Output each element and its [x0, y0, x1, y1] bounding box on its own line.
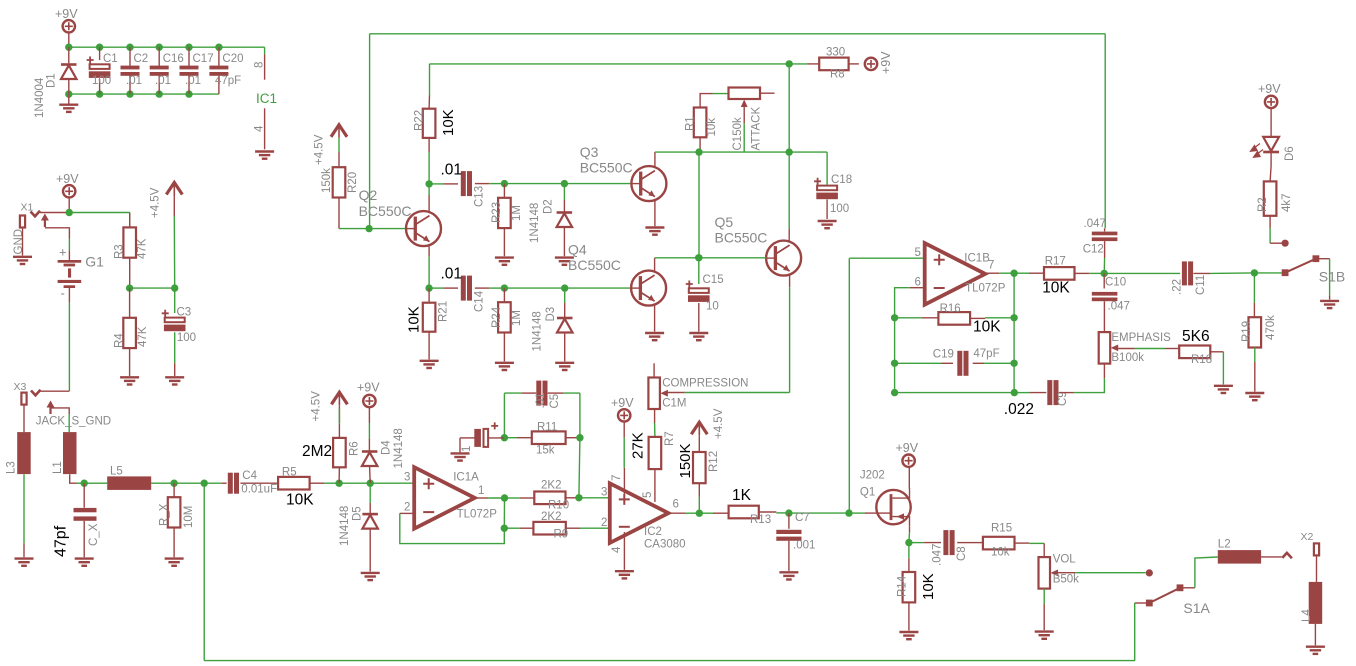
svg-text:10K: 10K [286, 492, 314, 509]
junction R16 right [1010, 314, 1017, 321]
wire R15 to VOL [1015, 543, 1045, 557]
diode D3 1N4148 [532, 288, 573, 361]
svg-text:C8: C8 [956, 546, 968, 561]
wire Q4 emitter to ground [654, 305, 656, 331]
svg-text:R_X: R_X [159, 503, 171, 526]
wire X1 switch to battery+ [45, 228, 70, 251]
svg-text:R3: R3 [114, 244, 126, 259]
IC1A pin3 label [404, 472, 410, 484]
wire +9V pin down [68, 198, 70, 213]
svg-text:C18: C18 [831, 174, 852, 186]
potentiometer C1M COMPRESSION [648, 378, 748, 410]
junction dots top bus [65, 44, 222, 51]
resistor R5 10K [278, 466, 314, 508]
capacitor C17 .01 [180, 47, 214, 94]
wire +9V to IC2 pin7 [623, 422, 625, 494]
svg-text:1M: 1M [511, 205, 523, 221]
inductor L3 [6, 405, 31, 475]
ground IC2 [615, 571, 634, 578]
svg-text:C20: C20 [222, 53, 243, 65]
svg-text:.047: .047 [1108, 301, 1130, 313]
transistor Q1 J202 JFET [860, 470, 911, 527]
svg-text:GND: GND [13, 229, 25, 255]
svg-text:.001: .001 [793, 540, 815, 552]
IC1 label [256, 91, 277, 106]
wire S1B pole to ground [1316, 259, 1330, 300]
wire top filter bus [69, 46, 265, 48]
capacitor C12 .047 [1083, 218, 1118, 273]
junction R1 bottom [695, 148, 702, 155]
wire gate to JFET [849, 512, 876, 514]
ground VOL [1035, 632, 1054, 639]
svg-text:L5: L5 [110, 466, 123, 478]
svg-text:C5: C5 [549, 394, 561, 409]
transistor Q3 BC550C [580, 144, 667, 201]
svg-text:R10: R10 [548, 500, 569, 512]
svg-text:2M2: 2M2 [302, 443, 332, 460]
junction J202 gate node [845, 509, 852, 516]
svg-text:G1: G1 [85, 254, 104, 270]
ground C_X [75, 559, 94, 566]
svg-text:2: 2 [601, 517, 607, 529]
resistor R21 10K [406, 288, 450, 333]
svg-text:L2: L2 [1218, 539, 1231, 551]
svg-text:1M: 1M [511, 310, 523, 326]
capacitor C9 .022 [1004, 380, 1069, 418]
junction C9 row left [891, 389, 898, 396]
LED D6 [1251, 137, 1297, 161]
capacitor C18 100 electrolytic [814, 174, 852, 219]
supply +9V (IC2) [611, 396, 634, 422]
wire IC2 pin4 to ground [623, 532, 625, 570]
wire bus1 vertical (C12 feedback) [369, 34, 371, 229]
wire Q3 emitter to ground [654, 201, 656, 227]
wire bus2 from R22 [430, 64, 790, 96]
svg-text:C16: C16 [163, 53, 184, 65]
resistor R1 10k [685, 108, 719, 138]
svg-text:C7: C7 [795, 512, 810, 524]
capacitor C_X 47pf [53, 483, 101, 557]
svg-text:.01: .01 [185, 75, 201, 87]
pot C1M top stub [653, 363, 655, 377]
capacitor C2 .01 [121, 47, 149, 94]
wire R9 to CA3080 - [566, 527, 610, 529]
svg-text:150K: 150K [677, 443, 694, 478]
svg-text:L1: L1 [52, 461, 64, 474]
svg-text:S1B: S1B [1319, 269, 1345, 285]
svg-text:15k: 15k [536, 445, 555, 457]
svg-text:TL072P: TL072P [457, 509, 498, 521]
diode D2 1N4148 [529, 184, 572, 257]
resistor R6 2M2 [302, 438, 361, 467]
wire C14 to row2 [475, 287, 505, 289]
svg-text:1: 1 [461, 446, 473, 452]
svg-text:C13: C13 [474, 186, 486, 207]
wire C9 to EMPHASIS [1059, 364, 1104, 393]
wire R22 to Q2 collector [428, 138, 430, 184]
capacitor C6 1 electrolytic [451, 422, 505, 460]
wire C9 row [895, 389, 1047, 396]
junction C_X node [81, 480, 108, 487]
junction R12 bottom [696, 510, 703, 517]
svg-text:47K: 47K [137, 238, 149, 259]
svg-text:.01: .01 [441, 162, 463, 179]
ground C15 [689, 333, 708, 340]
svg-text:R22: R22 [414, 110, 426, 131]
ground R_X [165, 559, 184, 566]
supply +9V (D4) [357, 381, 380, 408]
resistor R13 1K [729, 487, 772, 526]
svg-text:330: 330 [826, 47, 845, 59]
wire X3 tip from battery [41, 390, 70, 392]
IC2 pin labels [601, 475, 679, 553]
svg-text:C14: C14 [474, 290, 486, 312]
inductor L2 [1218, 539, 1261, 564]
wire end dot VOL wiper [1146, 569, 1153, 576]
wire +4.5V to R12 [698, 435, 700, 452]
svg-text:5K6: 5K6 [1182, 328, 1210, 345]
svg-text:R21: R21 [438, 301, 450, 322]
supply +4.5V (R20) [314, 124, 348, 165]
svg-text:1K: 1K [732, 487, 752, 504]
supply +4.5V (R6) [311, 391, 348, 422]
svg-text:.01: .01 [126, 75, 142, 87]
pot EMPHASIS wiper wire [1117, 348, 1166, 350]
resistor R2 4k7 [1257, 181, 1293, 215]
svg-text:X2: X2 [1301, 531, 1314, 543]
svg-text:.022: .022 [1004, 401, 1034, 418]
svg-text:+9V: +9V [896, 441, 919, 455]
ground R24 [495, 363, 514, 370]
wire C18 branch [789, 152, 827, 185]
capacitor C7 .001 [776, 512, 815, 571]
svg-text:6: 6 [915, 277, 921, 289]
junction R16 left [891, 314, 898, 363]
wire R21 to ground [428, 332, 430, 360]
ground C7 [779, 572, 798, 579]
ground D3 [555, 363, 574, 370]
ground R4 [120, 377, 139, 384]
capacitor C13 .01 [441, 162, 486, 208]
svg-text:+9V: +9V [1258, 82, 1281, 96]
svg-text:VOL: VOL [1053, 554, 1077, 566]
supply +4.5V (R12) [691, 408, 725, 439]
svg-text:Q1: Q1 [860, 487, 875, 499]
wire Q2 emitter [428, 246, 430, 288]
junction D3 [561, 284, 631, 291]
ground L4 [1306, 647, 1325, 654]
resistor R7 27K [630, 432, 662, 469]
ground S1B [1320, 301, 1339, 308]
svg-text:C4: C4 [242, 470, 257, 482]
svg-text:BC550C: BC550C [359, 203, 412, 219]
wire R13 right [759, 511, 789, 514]
svg-text:R5: R5 [282, 466, 297, 478]
wire R7 to CA3080 pin5 [654, 469, 656, 502]
wire C8 to R15 [957, 542, 983, 544]
svg-text:B50k: B50k [1053, 574, 1079, 586]
svg-text:.047: .047 [1084, 218, 1106, 230]
wire bottom bypass rail [204, 660, 1135, 662]
junction R11 right [576, 434, 583, 441]
IC1B pin6 wire [895, 288, 925, 318]
svg-text:D3: D3 [545, 307, 557, 322]
inductor L4 [1301, 582, 1322, 624]
junction attack row right [786, 148, 793, 155]
svg-text:C2: C2 [134, 53, 149, 65]
svg-text:L3: L3 [6, 461, 18, 474]
pot ATTACK right stub [760, 92, 775, 94]
svg-text:1N4148: 1N4148 [339, 506, 351, 546]
resistor R14 10K [897, 543, 938, 603]
supply +9V (Q1) [896, 441, 919, 467]
capacitor C5 .01 [535, 381, 561, 409]
wire to R18 [1165, 348, 1179, 350]
wire battery minus to X3 [68, 303, 70, 391]
svg-text:D5: D5 [352, 506, 364, 521]
IC1B out wire [985, 272, 1014, 274]
svg-text:5: 5 [642, 492, 654, 498]
svg-text:R18: R18 [1191, 354, 1212, 366]
svg-text:TL072P: TL072P [965, 283, 1006, 295]
ground R19 [1245, 393, 1264, 400]
svg-text:D1: D1 [46, 73, 58, 88]
resistor R16 10K [895, 303, 1015, 336]
wire Q4 collector [655, 258, 699, 271]
svg-text:JACK_S_GND: JACK_S_GND [36, 416, 111, 428]
svg-text:R20: R20 [347, 172, 359, 193]
svg-text:R2: R2 [1257, 197, 1269, 212]
svg-text:4: 4 [254, 125, 266, 132]
svg-text:.01: .01 [441, 266, 463, 283]
svg-text:R13: R13 [750, 514, 771, 526]
svg-text:27K: 27K [630, 432, 647, 459]
wire +4.5V to R6 [338, 406, 340, 438]
svg-text:ATTACK: ATTACK [751, 107, 763, 151]
wire C13 branch [429, 183, 458, 185]
svg-text:10K: 10K [973, 319, 1001, 336]
inductor L5 [107, 466, 151, 490]
wire L5 to R_X node [151, 482, 174, 484]
junction source node [905, 539, 912, 546]
junction R6 node [335, 480, 370, 487]
junction R23 [501, 180, 565, 187]
svg-text:.01: .01 [535, 393, 547, 409]
wire VOL bottom to ground [1043, 589, 1045, 631]
svg-text:R9: R9 [554, 529, 569, 541]
svg-text:C_X: C_X [88, 523, 100, 546]
capacitor C15 10 electrolytic [686, 258, 724, 332]
junction dots bottom bus [65, 90, 193, 97]
svg-text:47pF: 47pF [973, 348, 999, 360]
svg-text:7: 7 [988, 260, 994, 272]
svg-text:C9: C9 [1057, 391, 1069, 406]
svg-text:R14: R14 [897, 575, 909, 597]
op-amp IC1A TL072P [414, 467, 497, 529]
junction Q2 emitter / C14 [425, 284, 458, 291]
wire R12 to out node [698, 483, 700, 513]
svg-text:R17: R17 [1045, 256, 1066, 268]
svg-text:+4.5V: +4.5V [150, 187, 162, 218]
svg-text:4: 4 [611, 546, 623, 553]
svg-text:10: 10 [706, 301, 719, 313]
wire node to C4 [204, 482, 226, 484]
wire R1 top corner [700, 94, 729, 108]
svg-text:D4: D4 [381, 440, 393, 455]
svg-text:47K: 47K [137, 326, 149, 347]
svg-text:C12: C12 [1083, 244, 1104, 256]
wire +9V rail vertical (Q5 collector) [788, 64, 790, 241]
svg-text:8: 8 [254, 62, 266, 68]
junction R19/S1B [1251, 269, 1258, 276]
wire fb right column [1013, 273, 1015, 392]
svg-text:IC2: IC2 [644, 526, 662, 538]
resistor R15 10k [983, 523, 1015, 559]
wire Q3 collector [655, 152, 699, 166]
wire R11 node down to pin3 [575, 438, 582, 502]
svg-text:BC550C: BC550C [568, 257, 621, 273]
svg-text:R6: R6 [349, 441, 361, 456]
capacitor C4 0.01uF [228, 470, 277, 495]
IC1 power pin 8 [254, 47, 266, 79]
wire +9V to top bus [68, 33, 70, 48]
ground Q3 [645, 228, 664, 235]
wire S1A throw to L2 [1180, 557, 1218, 588]
wire C12 from top bus [1104, 34, 1107, 232]
svg-text:C1: C1 [103, 53, 118, 65]
junction R24 [501, 284, 565, 291]
potentiometer C150k ATTACK [729, 88, 763, 151]
wire R5 to D-node [310, 482, 340, 484]
svg-text:R23: R23 [491, 202, 503, 223]
wire S1B lower contact [1254, 272, 1285, 274]
svg-text:COMPRESSION: COMPRESSION [662, 378, 748, 390]
svg-text:D6: D6 [1284, 146, 1296, 161]
wire +9V to drain [908, 467, 910, 489]
svg-text:R8: R8 [830, 69, 845, 81]
wire bottom filter bus [69, 93, 219, 95]
resistor R10 2K2 [505, 480, 570, 512]
svg-text:Q5: Q5 [715, 214, 734, 230]
wire source to C8 [909, 542, 941, 544]
junction D4/D5 node [367, 480, 415, 487]
ground R21 [420, 361, 439, 368]
svg-text:+4.5V: +4.5V [713, 408, 725, 439]
svg-text:2: 2 [404, 502, 410, 514]
svg-text:.047: .047 [932, 544, 944, 566]
switch S1A [1146, 584, 1211, 616]
wire +9V node to R3 [69, 213, 130, 228]
svg-text:.01: .01 [155, 75, 171, 87]
svg-text:3: 3 [601, 487, 607, 499]
svg-text:.22: .22 [1172, 279, 1184, 295]
connector X1 jack [13, 202, 49, 255]
svg-text:100: 100 [92, 75, 111, 87]
svg-text:D2: D2 [543, 199, 555, 214]
capacitor C11 .22 [1172, 261, 1208, 295]
junction C19 left [891, 360, 898, 393]
wire X1 sleeve to ground [22, 228, 24, 256]
svg-text:C19: C19 [933, 349, 954, 361]
switch S1B [1282, 255, 1346, 284]
svg-text:R24: R24 [491, 306, 503, 328]
wire C19 row [895, 362, 1015, 364]
svg-text:S1A: S1A [1183, 600, 1210, 616]
label R7 [664, 431, 676, 446]
resistor R8 330 [807, 47, 859, 81]
IC1B pin labels [915, 247, 995, 289]
IC1 power pin 4 [254, 108, 266, 149]
ground C3 [165, 377, 184, 384]
resistor R22 10K [414, 96, 458, 138]
wire R19 to ground [1254, 348, 1256, 392]
svg-text:10K: 10K [1042, 280, 1070, 297]
svg-text:10k: 10k [706, 118, 718, 137]
junction bus2 R8 [786, 60, 808, 67]
svg-text:R11: R11 [537, 422, 557, 434]
wire +4.5V down to C3 node [173, 196, 175, 289]
battery G1 [58, 245, 105, 303]
wire gate node up to IC1B+ [849, 258, 924, 513]
ground IC1 pin4 [255, 152, 274, 159]
wire C5 loop left [504, 393, 536, 438]
wire source down [908, 526, 911, 542]
svg-text:C1M: C1M [662, 397, 686, 409]
capacitor C10 .047 [1092, 273, 1130, 332]
capacitor C3 100 electrolytic [162, 288, 196, 376]
wire R1 bottom [699, 137, 700, 152]
pot VOL wiper wire [1057, 572, 1146, 574]
wire X1 tip to +9V node [40, 212, 69, 214]
svg-text:10K: 10K [440, 109, 457, 136]
ground C18 [818, 221, 837, 228]
svg-text:1N4148: 1N4148 [532, 311, 544, 351]
svg-text:R4: R4 [114, 333, 126, 348]
wire Q5 emitter [789, 276, 791, 393]
svg-text:10k: 10k [991, 547, 1010, 559]
svg-text:L4: L4 [1301, 609, 1313, 622]
svg-text:C11: C11 [1195, 275, 1207, 295]
svg-text:C17: C17 [193, 53, 214, 65]
junction R9 left [501, 498, 508, 532]
wire D6 to R2 [1270, 152, 1271, 181]
wire +9V to D6 [1270, 108, 1272, 136]
S1B upper contact dot [1282, 240, 1289, 247]
svg-text:BC550C: BC550C [715, 230, 768, 246]
potentiometer EMPHASIS B100k [1099, 332, 1171, 364]
junction R_X node [170, 480, 204, 487]
wire R6 to node [338, 467, 340, 483]
svg-text:IC1: IC1 [256, 91, 277, 106]
svg-text:Q3: Q3 [580, 144, 599, 160]
ground R23 [495, 258, 514, 265]
transistor Q5 BC550C [715, 214, 802, 276]
svg-text:1N4148: 1N4148 [393, 428, 405, 468]
svg-text:+4.5V: +4.5V [314, 134, 326, 165]
svg-text:470k: 470k [1265, 315, 1277, 340]
resistor R17 10K [1014, 256, 1104, 297]
svg-text:IC1A: IC1A [453, 472, 479, 484]
resistor R_X 10M [159, 483, 196, 557]
svg-text:3: 3 [404, 472, 410, 484]
ground Q4 [645, 333, 664, 340]
capacitor C1 100 electrolytic [87, 47, 118, 94]
junction R17/C12/C10 [1101, 270, 1181, 277]
ground R14 [899, 632, 918, 639]
wire S1A pole left-down [1135, 603, 1150, 661]
svg-text:B100k: B100k [1111, 352, 1144, 364]
svg-text:C10: C10 [1105, 277, 1126, 289]
